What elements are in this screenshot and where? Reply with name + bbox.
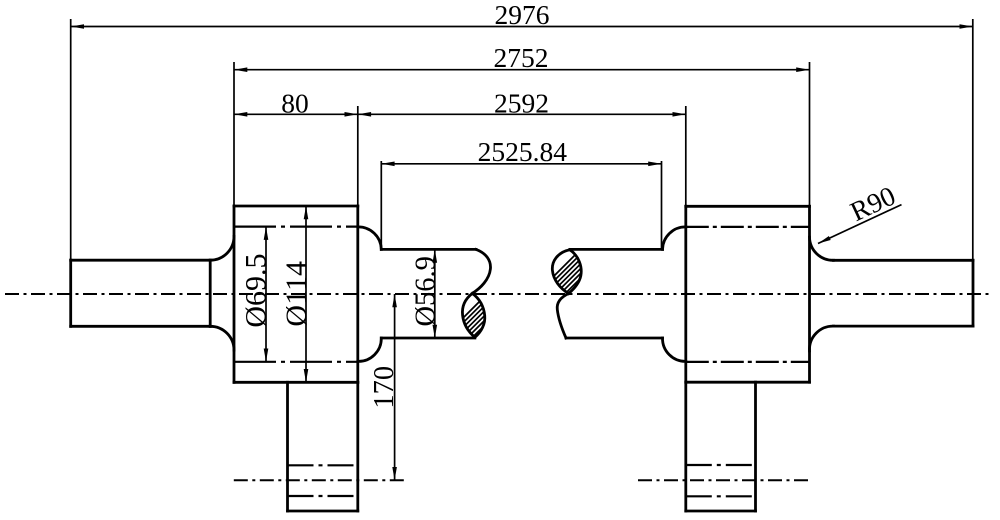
- svg-text:2525.84: 2525.84: [478, 136, 568, 167]
- svg-text:80: 80: [281, 87, 309, 118]
- svg-text:Ø69.5: Ø69.5: [240, 254, 273, 328]
- svg-text:Ø114: Ø114: [280, 261, 313, 327]
- svg-text:170: 170: [369, 366, 400, 409]
- svg-text:2752: 2752: [494, 42, 549, 73]
- svg-text:2592: 2592: [494, 87, 549, 118]
- svg-text:2976: 2976: [495, 0, 550, 30]
- svg-text:Ø56.9: Ø56.9: [411, 256, 442, 326]
